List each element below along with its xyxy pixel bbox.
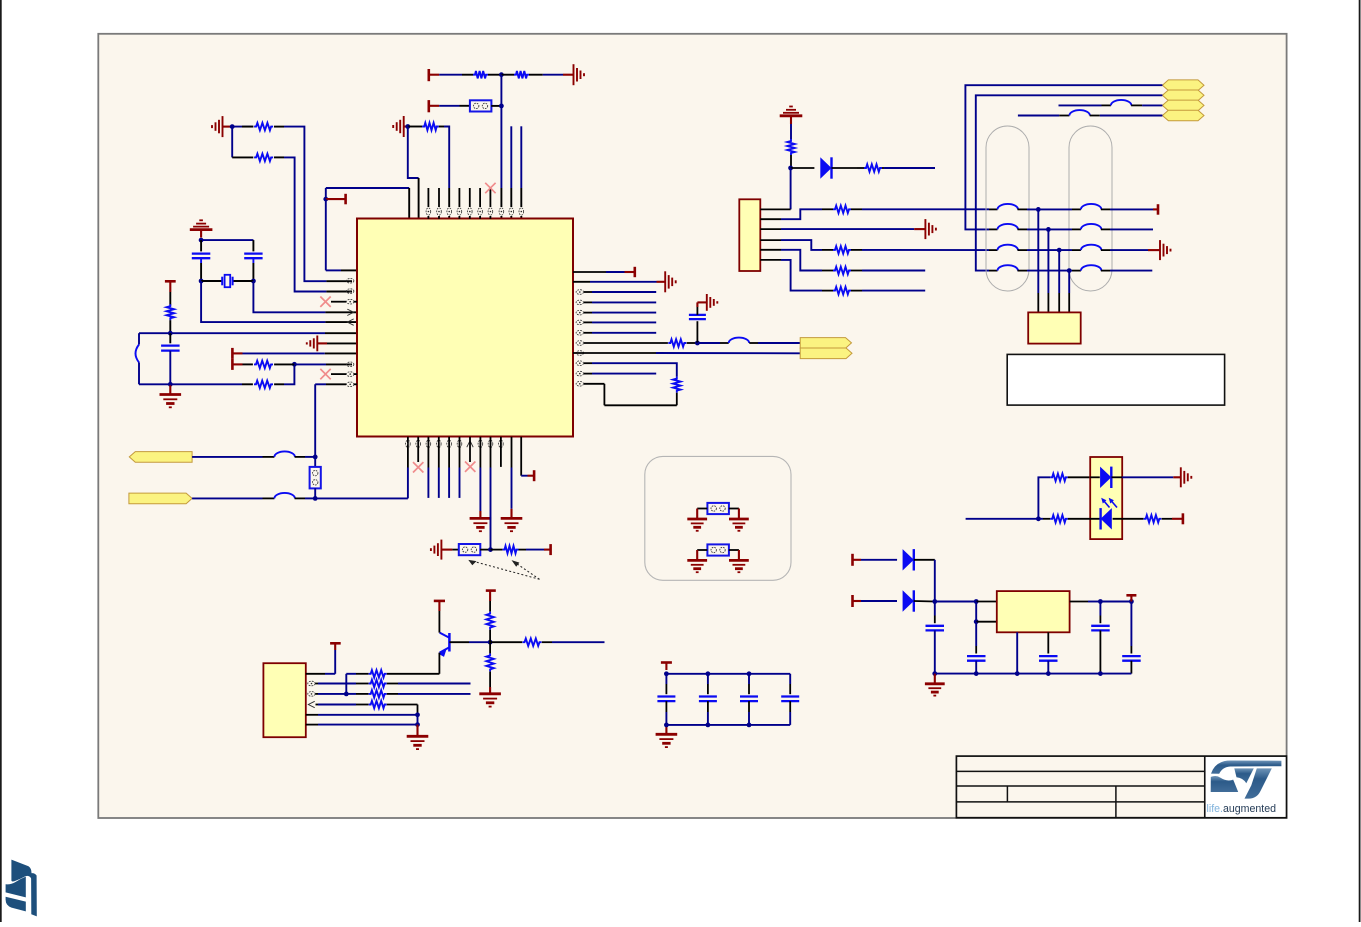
junction <box>1036 207 1041 212</box>
junction <box>706 671 711 676</box>
wire <box>346 693 368 695</box>
pin stub <box>331 373 357 375</box>
power port VDD10 <box>1182 513 1185 524</box>
ground <box>470 518 492 531</box>
wire <box>1131 104 1162 106</box>
power port VDD4 <box>633 267 636 277</box>
wire to ground <box>479 437 481 518</box>
wire <box>1162 518 1183 520</box>
junction <box>230 124 235 129</box>
rail 4 beads <box>989 265 1110 270</box>
resistor R_n <box>833 246 851 253</box>
wire <box>243 352 357 354</box>
net arrow A1 <box>1162 80 1204 91</box>
resistor R_e <box>422 123 439 130</box>
wire <box>201 240 253 251</box>
resistor R_r <box>369 680 387 687</box>
wire <box>935 601 976 603</box>
crystal Y1 <box>201 275 253 287</box>
USB connector J1 <box>1028 312 1081 343</box>
wire <box>326 188 409 219</box>
pin wire <box>760 209 833 219</box>
net stub <box>459 437 461 498</box>
wire <box>274 364 294 384</box>
power port VDD5 <box>549 544 552 555</box>
wire <box>857 167 935 169</box>
power port VDD7 <box>434 600 445 603</box>
junction <box>168 331 173 336</box>
junction <box>1015 671 1020 676</box>
ground AGND1 <box>212 116 231 137</box>
wire <box>408 126 423 128</box>
transistor Q1 <box>438 602 449 674</box>
power port VDD8 <box>486 589 496 592</box>
diode D1 <box>791 157 857 178</box>
resistor R_t <box>369 690 387 697</box>
capacitor C_d <box>967 622 986 674</box>
power port VOUT <box>1126 595 1136 601</box>
wire <box>1100 601 1131 603</box>
IC right pin decorations <box>576 290 583 386</box>
no-connect X <box>413 462 423 472</box>
wire rail2 <box>139 383 253 385</box>
junction <box>788 166 793 171</box>
wire <box>325 188 327 199</box>
page right border <box>1359 0 1361 922</box>
pin wire <box>760 208 790 210</box>
net stub <box>520 126 522 219</box>
connector CN1 <box>739 199 760 271</box>
rail 3 beads <box>989 245 1110 250</box>
power port VDD3 <box>326 194 346 205</box>
wire <box>584 342 668 344</box>
net arrow A4 <box>1162 110 1204 121</box>
ground <box>160 384 182 407</box>
wire <box>169 320 171 333</box>
net arrow IN1 <box>129 452 192 463</box>
wire <box>274 157 352 291</box>
wire <box>976 601 997 603</box>
ground <box>1181 467 1192 487</box>
junction <box>1129 599 1134 604</box>
signal ground (inverted) <box>190 220 213 237</box>
pin chevron <box>308 701 314 707</box>
junction <box>488 640 493 645</box>
net arrow A3 <box>1162 100 1204 111</box>
net stub <box>584 301 656 303</box>
wire <box>584 363 677 376</box>
power port VDD1 <box>429 69 439 81</box>
pin <box>308 692 315 697</box>
power port VBUS <box>1157 204 1160 215</box>
junction <box>499 104 504 109</box>
wire <box>316 693 347 695</box>
wire <box>408 127 419 219</box>
capacitor C_c <box>926 602 945 674</box>
resistor R_l <box>864 164 882 171</box>
wire <box>1090 115 1163 117</box>
wire <box>851 249 989 251</box>
wire <box>697 509 707 519</box>
pin stub <box>417 437 419 462</box>
ground <box>707 294 718 311</box>
wire <box>519 549 551 551</box>
junction <box>168 382 173 387</box>
resistor R_x <box>523 639 542 646</box>
capacitor C <box>699 674 717 725</box>
wire to ground <box>511 437 513 518</box>
wire <box>274 363 352 365</box>
shield outline right <box>1069 126 1112 291</box>
pin wire <box>760 250 833 271</box>
resistor R_p <box>833 287 851 294</box>
ferrite bead FB4 <box>274 451 295 456</box>
net stub <box>584 291 656 293</box>
wire <box>542 641 605 643</box>
connector CN2 <box>263 663 305 737</box>
power port VDDA <box>165 281 176 305</box>
junction <box>488 547 493 552</box>
wire <box>790 168 792 209</box>
wire rail <box>139 332 357 334</box>
wire <box>1070 601 1101 603</box>
wire <box>573 281 665 283</box>
junction <box>695 341 700 346</box>
resistor R_i <box>668 339 686 346</box>
wire <box>1038 518 1050 520</box>
schematic sheet <box>98 34 1286 818</box>
wire <box>346 674 368 694</box>
wire <box>965 85 1162 229</box>
wire <box>387 705 418 715</box>
LED arrows <box>1101 498 1117 508</box>
resistor R_w <box>486 642 493 671</box>
resistor R_q <box>503 546 519 553</box>
wire <box>315 437 408 499</box>
wire <box>306 714 418 716</box>
wire to USB <box>1047 229 1049 312</box>
jumper P_c <box>459 544 481 555</box>
net stub <box>448 437 450 498</box>
wire to USB <box>1037 209 1039 312</box>
wire <box>501 74 514 76</box>
power port VIN2 <box>853 595 862 607</box>
wire <box>439 105 470 107</box>
power port VBAT <box>533 470 536 481</box>
junction <box>1067 268 1072 273</box>
power port VDD2 <box>429 100 439 112</box>
wire <box>790 124 792 139</box>
logo background <box>1206 757 1286 817</box>
resistor R_b <box>254 154 273 161</box>
wire <box>316 704 369 706</box>
wire <box>489 591 491 612</box>
wire <box>790 155 792 168</box>
pin stub <box>469 437 471 447</box>
junction <box>932 671 937 676</box>
wire <box>966 518 1039 520</box>
wire <box>687 342 698 344</box>
diode D5 <box>903 590 935 611</box>
ground <box>431 540 453 560</box>
notes box <box>1007 354 1224 405</box>
wire <box>201 281 357 322</box>
wire <box>387 673 440 675</box>
power port VDD6 <box>330 642 341 645</box>
wire <box>491 105 501 107</box>
wire <box>861 559 897 561</box>
no-connect X <box>485 183 495 193</box>
pin stub <box>469 447 471 462</box>
wire <box>243 363 253 365</box>
resistor R_a <box>254 123 273 130</box>
page left border <box>0 0 2 922</box>
net arrow OUT2 <box>800 348 852 359</box>
net stub <box>510 126 512 219</box>
pin <box>447 208 452 215</box>
ferrite bead FB3 <box>1069 110 1090 115</box>
wire <box>232 127 253 158</box>
power port VREF <box>232 348 242 359</box>
pin <box>308 681 315 686</box>
group outline <box>645 456 791 580</box>
junction <box>344 692 349 697</box>
ground <box>656 725 678 747</box>
junction <box>1098 599 1103 604</box>
capacitor C_x2 <box>244 254 262 281</box>
capacitor C_f <box>1091 602 1110 674</box>
wire to power <box>521 437 534 476</box>
power port VIN1 <box>853 554 862 566</box>
wire <box>449 641 490 643</box>
wire <box>1038 477 1050 519</box>
net stub <box>427 437 429 498</box>
ferrite bead FB5 <box>274 493 295 498</box>
pin <box>499 208 504 215</box>
wire <box>314 488 316 498</box>
junction <box>1046 671 1051 676</box>
junction <box>974 671 979 676</box>
wire <box>851 270 925 272</box>
junction <box>415 712 420 717</box>
ground <box>479 694 501 707</box>
wire <box>573 271 635 273</box>
wire <box>416 725 418 736</box>
resistor R_c <box>473 71 488 78</box>
wire <box>529 74 573 76</box>
junction <box>747 671 752 676</box>
net stub <box>438 437 440 498</box>
wire to USB <box>1068 271 1070 313</box>
shield outline left <box>986 126 1029 291</box>
wire <box>274 127 352 282</box>
wire <box>934 560 936 602</box>
wire <box>976 621 997 623</box>
jumper P <box>707 544 729 555</box>
rail 2 beads <box>989 224 1110 229</box>
resistor R_k <box>787 139 794 155</box>
pin <box>509 208 514 215</box>
net stub <box>584 312 656 314</box>
ground <box>407 736 429 749</box>
pin stub <box>500 437 502 467</box>
wire <box>1068 476 1090 478</box>
pin wire to ground <box>760 228 925 230</box>
jumper P <box>707 503 729 514</box>
junction <box>974 599 979 604</box>
pin stub <box>315 383 357 385</box>
LED block U2 <box>1090 457 1122 539</box>
wire <box>192 456 274 458</box>
junction <box>974 619 979 624</box>
bottom rail <box>666 724 790 726</box>
wire <box>1122 476 1181 478</box>
no-connect X <box>465 462 475 472</box>
ground <box>925 674 945 696</box>
wire <box>749 342 800 344</box>
capacitor C_g <box>1122 602 1141 674</box>
net stub <box>584 332 656 334</box>
wire <box>1110 249 1160 251</box>
IC U1 <box>357 219 573 437</box>
capacitor C <box>781 674 799 725</box>
net arrow OUT1 <box>800 338 851 349</box>
resistor R_g <box>254 381 273 388</box>
pin wire <box>760 260 833 291</box>
pin wire to power <box>306 644 335 674</box>
wire <box>439 74 473 76</box>
regulator U3 <box>997 591 1070 632</box>
resistor R_y <box>1050 474 1068 481</box>
wire <box>480 549 490 551</box>
ferrite bead FB1 <box>729 338 750 343</box>
net stub <box>584 373 656 375</box>
pin wire <box>760 240 833 250</box>
net stub <box>584 321 656 323</box>
ground <box>729 519 749 531</box>
wire <box>975 602 977 622</box>
wire <box>489 672 491 694</box>
resistor R_d <box>514 71 529 78</box>
ferrite bead FB2 <box>1111 100 1132 105</box>
ground <box>687 519 707 531</box>
wire loop <box>584 384 677 406</box>
wire with arc <box>136 333 140 384</box>
junction <box>405 124 410 129</box>
wire <box>1018 115 1070 117</box>
regulator pin wire <box>1016 632 1018 673</box>
title block <box>956 756 1286 818</box>
signal ground (inverted) <box>780 107 803 125</box>
wire <box>387 693 471 695</box>
wire <box>295 497 316 499</box>
net stub <box>1110 270 1152 272</box>
junction <box>323 197 328 202</box>
resistor R_aa <box>1144 515 1162 522</box>
resistor R_z <box>1050 515 1068 522</box>
wire <box>489 630 491 643</box>
LED D3 <box>1068 508 1144 529</box>
pin stub <box>331 301 357 303</box>
ground <box>501 518 523 531</box>
capacitor C_x1 <box>192 240 211 258</box>
wire <box>316 683 369 685</box>
power port VREF2 <box>232 359 242 370</box>
rail 1 beads <box>989 204 1110 209</box>
junction <box>313 496 318 501</box>
LED D2 <box>1090 467 1122 488</box>
junction <box>415 722 420 727</box>
ST logo partial <box>6 860 37 917</box>
resistor R_f <box>167 304 174 320</box>
jumper P_a <box>470 100 492 111</box>
ground <box>729 560 749 572</box>
wire <box>851 208 989 210</box>
wire <box>490 641 522 643</box>
ground <box>574 64 585 85</box>
wire <box>861 600 897 602</box>
regulator pin + capacitor C_e <box>1039 632 1058 673</box>
capacitor C_b <box>689 315 706 343</box>
wire <box>976 95 1163 270</box>
wire <box>1059 104 1111 106</box>
wire <box>326 199 357 270</box>
wire <box>729 550 739 560</box>
capacitor C_a <box>161 333 180 384</box>
wire to ground <box>697 302 706 315</box>
jumper P_b <box>310 467 321 489</box>
top rail <box>666 673 790 675</box>
junction <box>664 671 669 676</box>
pin <box>519 208 524 215</box>
junction <box>1036 516 1041 521</box>
resistor R_h <box>254 361 273 368</box>
wire <box>491 549 503 551</box>
IC top pins <box>426 188 493 219</box>
junction <box>292 362 297 367</box>
wire <box>851 290 925 292</box>
bottom rail <box>935 673 1132 675</box>
resistor R_v <box>486 612 493 630</box>
life.augmented text <box>1207 803 1277 815</box>
diode D4 <box>903 549 935 570</box>
wire <box>439 127 449 219</box>
net arrow A2 <box>1162 90 1204 101</box>
wire <box>192 497 274 499</box>
capacitor C <box>657 674 675 725</box>
resistor R_o <box>833 267 851 274</box>
ground <box>665 271 676 292</box>
wire <box>452 549 459 551</box>
wire <box>729 509 739 519</box>
junction <box>199 279 204 284</box>
ground <box>925 219 936 239</box>
IC bottom pin decorations <box>406 440 504 447</box>
wire <box>1110 208 1158 210</box>
wire <box>490 437 492 550</box>
junction <box>251 279 256 284</box>
ground <box>1160 240 1171 260</box>
wire <box>387 683 471 685</box>
wire <box>573 352 800 354</box>
wire <box>232 126 253 128</box>
ground <box>687 560 707 572</box>
ground <box>393 116 408 137</box>
junction <box>499 72 504 77</box>
wire <box>314 384 316 467</box>
net arrow IN2 <box>129 493 192 504</box>
junction <box>199 238 204 243</box>
